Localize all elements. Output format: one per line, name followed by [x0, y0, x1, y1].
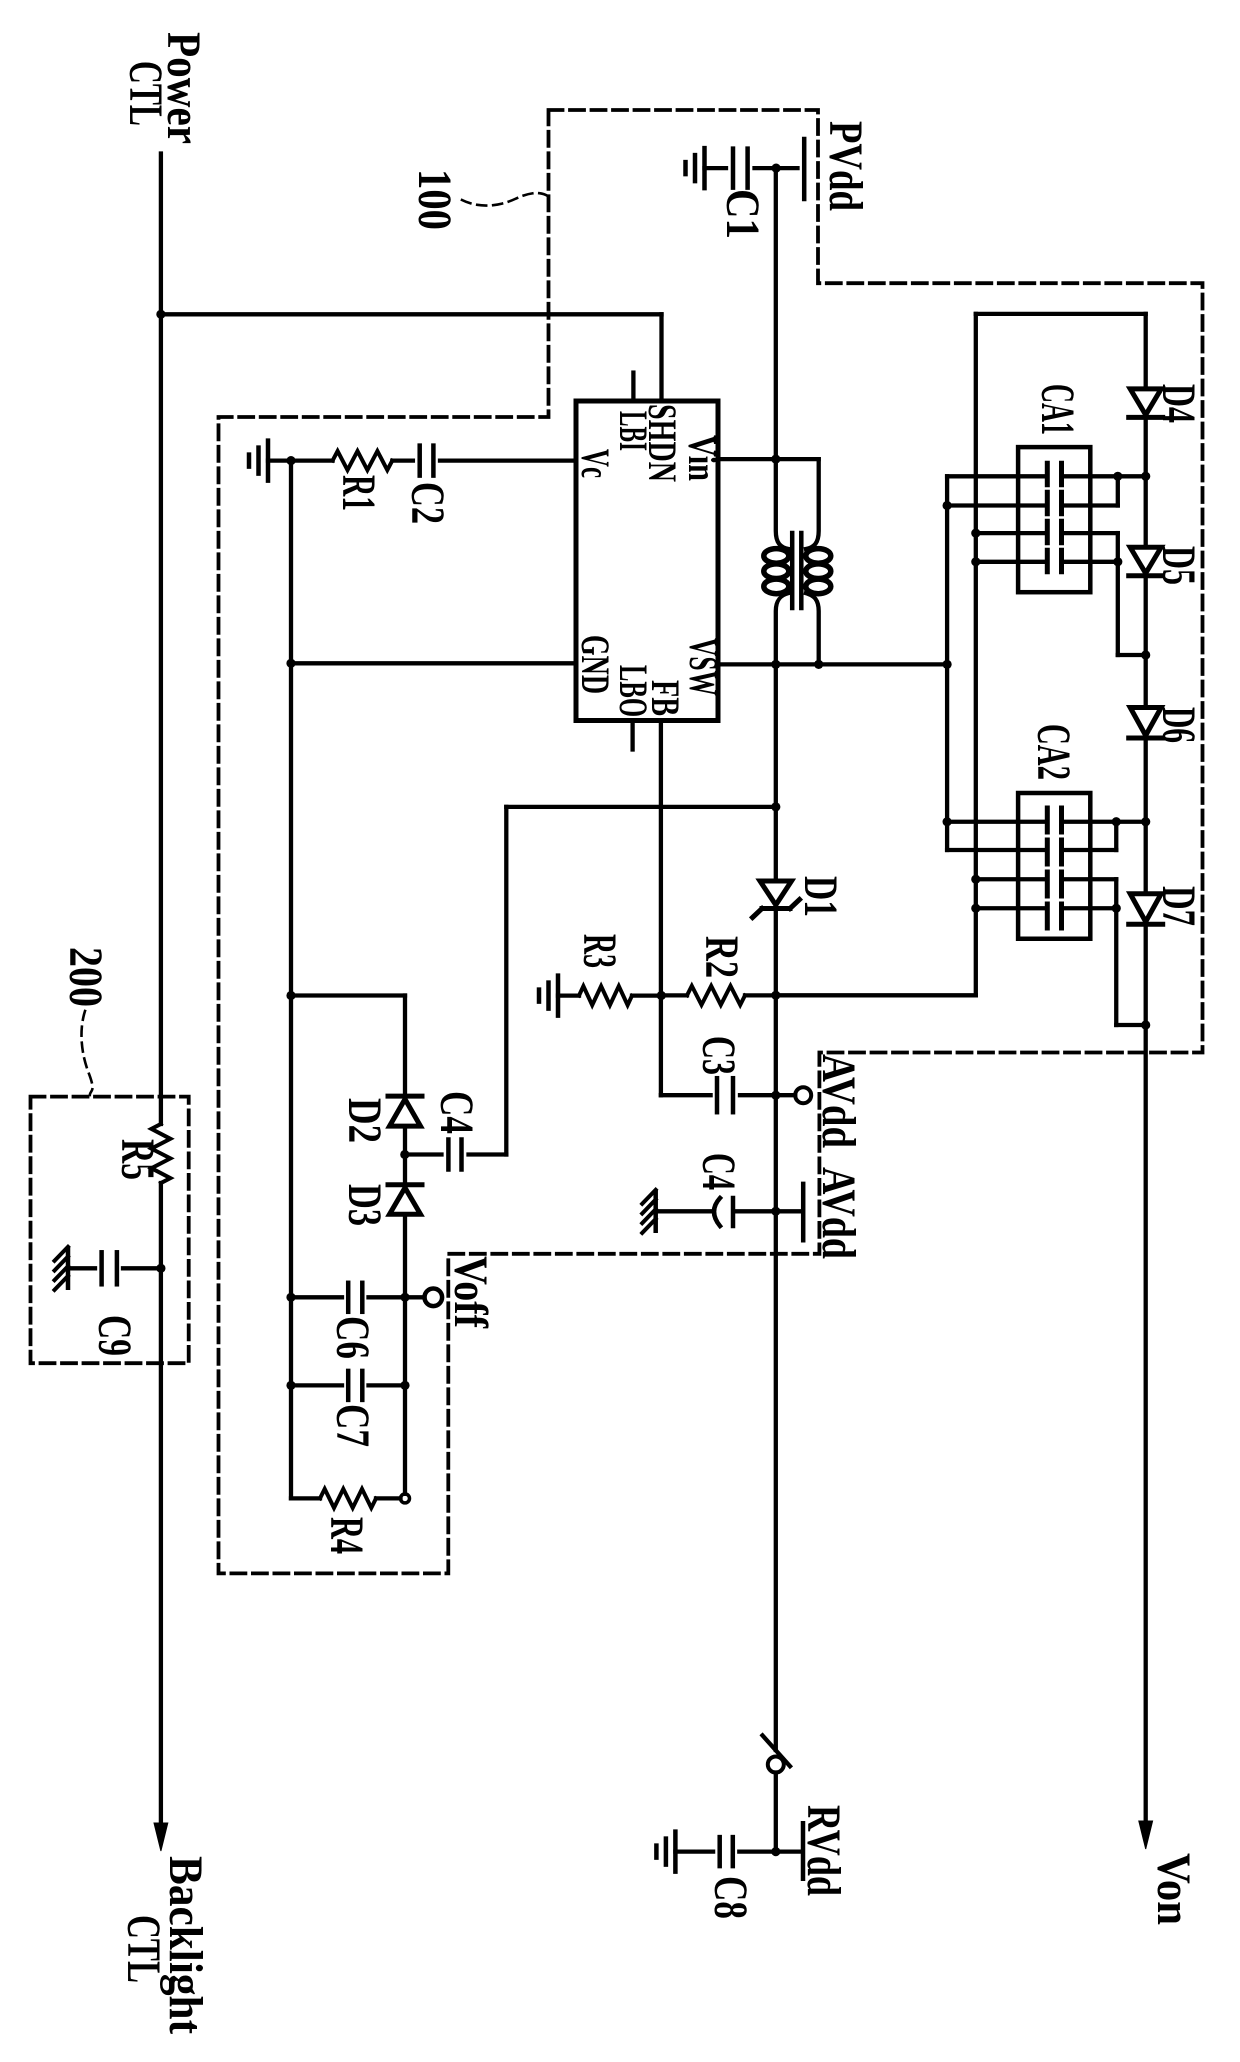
svg-text:LBI: LBI	[611, 411, 656, 451]
svg-text:C2: C2	[401, 482, 454, 524]
svg-text:AVdd: AVdd	[812, 1167, 865, 1259]
svg-text:CTL: CTL	[117, 1915, 170, 1983]
svg-text:100: 100	[408, 169, 461, 230]
svg-text:D4: D4	[1152, 384, 1205, 423]
svg-text:CA1: CA1	[1031, 384, 1084, 435]
svg-text:D6: D6	[1152, 707, 1205, 743]
svg-text:C8: C8	[704, 1876, 757, 1919]
svg-text:Von: Von	[1147, 1853, 1200, 1925]
svg-text:Vc: Vc	[573, 449, 618, 478]
svg-text:VSW: VSW	[681, 638, 726, 696]
svg-text:C7: C7	[326, 1404, 379, 1447]
svg-text:AVdd: AVdd	[812, 1054, 865, 1148]
svg-text:PVdd: PVdd	[819, 121, 872, 211]
svg-text:D5: D5	[1152, 546, 1205, 585]
svg-text:R2: R2	[695, 936, 748, 978]
svg-text:Voff: Voff	[444, 1256, 497, 1329]
svg-text:D2: D2	[338, 1098, 391, 1143]
svg-text:D1: D1	[794, 876, 847, 917]
svg-text:C4: C4	[692, 1153, 745, 1190]
svg-text:C4: C4	[430, 1091, 483, 1134]
svg-text:C3: C3	[692, 1036, 745, 1075]
svg-text:R1: R1	[332, 475, 385, 511]
svg-text:200: 200	[59, 947, 112, 1007]
svg-text:C6: C6	[326, 1316, 379, 1359]
svg-text:D3: D3	[338, 1184, 391, 1226]
svg-text:R3: R3	[573, 934, 626, 968]
svg-text:CTL: CTL	[119, 61, 172, 126]
svg-text:R4: R4	[320, 1517, 373, 1554]
svg-text:RVdd: RVdd	[797, 1805, 850, 1896]
svg-text:R5: R5	[111, 1139, 164, 1180]
svg-text:CA2: CA2	[1027, 724, 1080, 780]
svg-text:D7: D7	[1152, 886, 1205, 926]
svg-text:C1: C1	[716, 189, 769, 239]
svg-text:Vin: Vin	[680, 435, 725, 481]
svg-text:C9: C9	[88, 1315, 141, 1356]
